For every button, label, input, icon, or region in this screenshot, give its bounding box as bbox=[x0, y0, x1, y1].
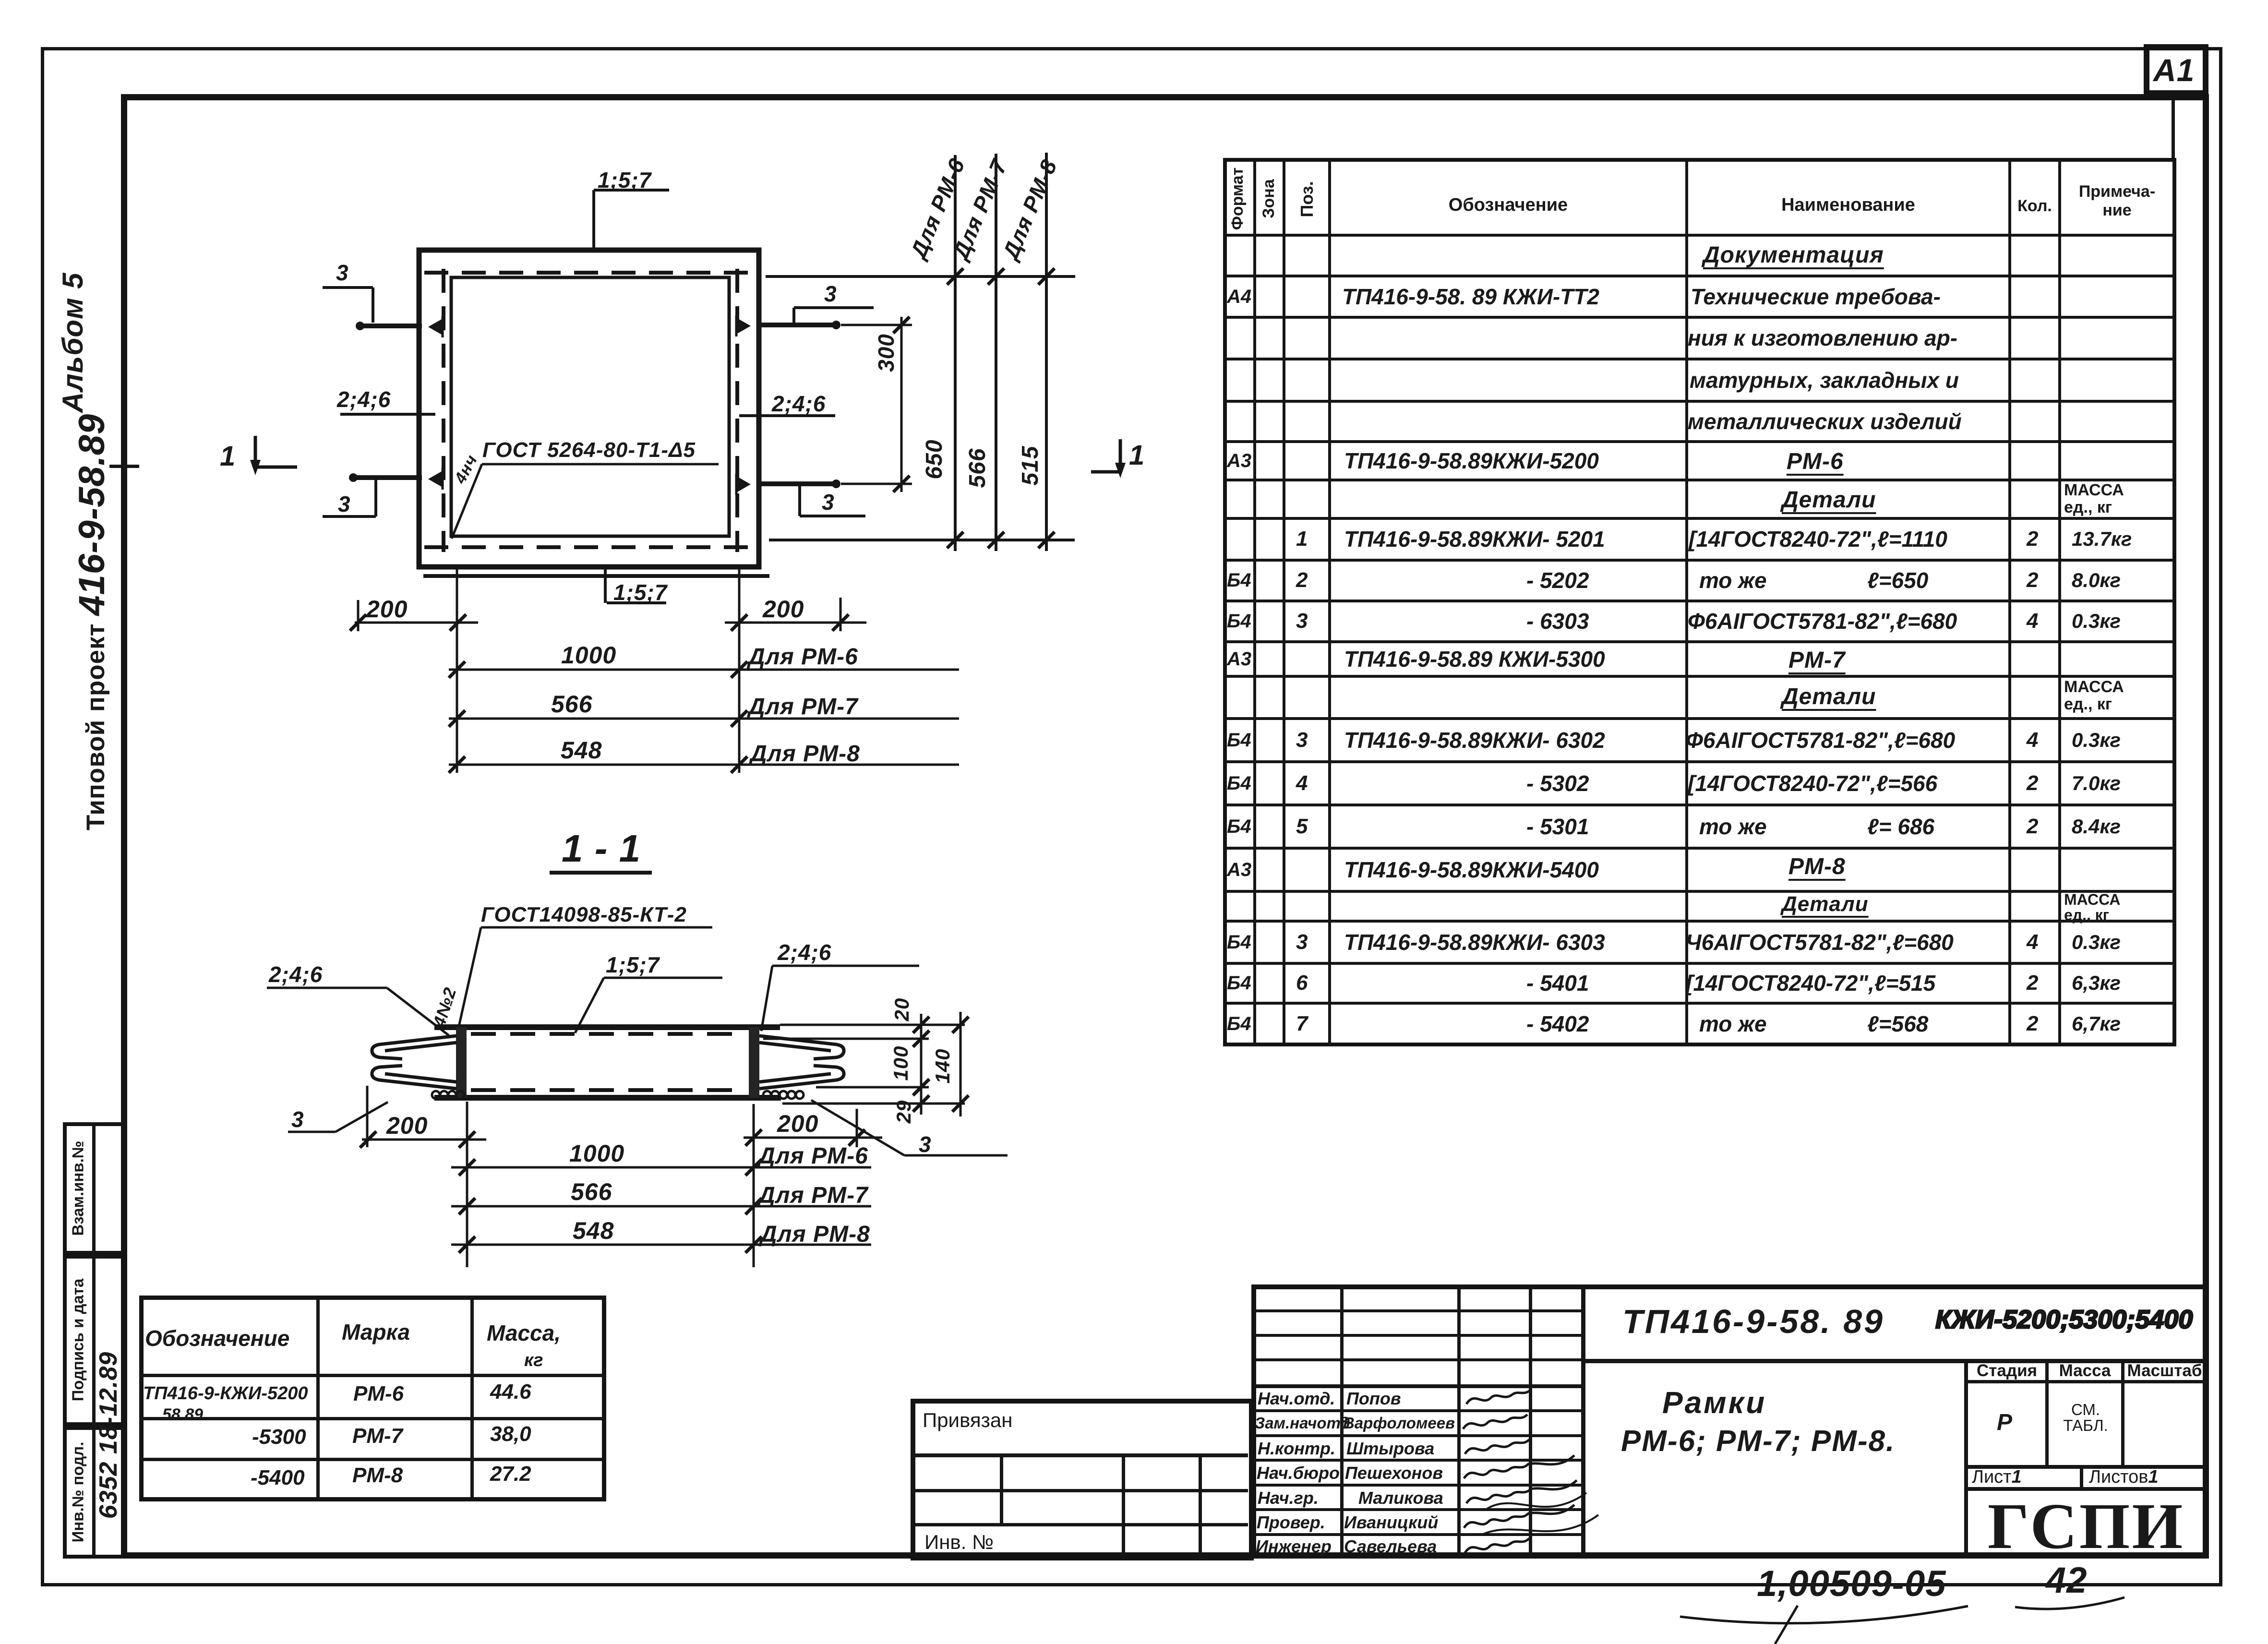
svg-text:1 - 1: 1 - 1 bbox=[562, 827, 641, 870]
svg-text:1000: 1000 bbox=[569, 1140, 624, 1167]
specification table body bbox=[1703, 244, 1884, 267]
title block frame bbox=[1251, 1284, 2209, 1559]
svg-text:650: 650 bbox=[922, 439, 947, 479]
svg-text:4нч: 4нч bbox=[451, 452, 481, 487]
plan anchor head symbol bbox=[428, 471, 442, 487]
svg-text:200: 200 bbox=[762, 596, 804, 623]
svg-text:548: 548 bbox=[573, 1217, 614, 1244]
svg-text:ГОСТ14098-85-КТ-2: ГОСТ14098-85-КТ-2 bbox=[481, 903, 687, 926]
section right dimensions 20 100 140 29 bbox=[780, 1024, 965, 1026]
specification table header bbox=[1229, 136, 1246, 261]
section weld dots bottom bbox=[432, 1091, 440, 1099]
svg-text:4№2: 4№2 bbox=[429, 985, 460, 1030]
title block horizontal lines: right part bbox=[1583, 1359, 2207, 1363]
plan dimension 300 bbox=[841, 324, 912, 326]
svg-text:140: 140 bbox=[931, 1048, 954, 1083]
svg-text:3: 3 bbox=[336, 260, 349, 285]
svg-text:515: 515 bbox=[1018, 445, 1043, 485]
svg-text:1;5;7: 1;5;7 bbox=[606, 952, 660, 977]
specification table grid bbox=[1223, 158, 2176, 1046]
margin stamp boxes bottom-left bbox=[63, 1122, 125, 1255]
A1 format box top-right bbox=[2144, 44, 2208, 96]
svg-text:ГОСТ 5264-80-Т1-Δ5: ГОСТ 5264-80-Т1-Δ5 bbox=[482, 438, 696, 462]
svg-text:200: 200 bbox=[366, 596, 408, 623]
section right channel flanges bbox=[759, 1036, 844, 1059]
svg-text:Для РМ-6: Для РМ-6 bbox=[756, 1143, 868, 1169]
svg-text:1;5;7: 1;5;7 bbox=[613, 580, 668, 605]
left margin rotated album label bbox=[59, 288, 87, 413]
handwritten bottom numbers bbox=[1757, 1566, 1946, 1602]
svg-text:2;4;6: 2;4;6 bbox=[268, 962, 323, 987]
small marks table bottom-left bbox=[139, 1296, 606, 1501]
stage/mass/scale bbox=[1966, 1362, 2048, 1379]
svg-text:1: 1 bbox=[220, 441, 236, 472]
handwritten underline swooshes bbox=[1680, 1606, 1968, 1623]
svg-text:3: 3 bbox=[291, 1107, 304, 1132]
GSPI logo bbox=[1967, 1494, 2205, 1559]
margin handwritten inventory number bbox=[96, 1310, 121, 1560]
privyazan box bbox=[911, 1399, 1254, 1560]
plan view: frame inner opening rectangle bbox=[451, 277, 729, 536]
plan view: frame outer rectangle bbox=[419, 250, 759, 567]
title block vertical dividers bbox=[1340, 1287, 1344, 1559]
title block name bbox=[1662, 1387, 1766, 1418]
plan anchor bar upper-left bbox=[357, 324, 422, 328]
svg-text:566: 566 bbox=[571, 1178, 612, 1205]
svg-text:200: 200 bbox=[777, 1110, 818, 1137]
section slab outline bbox=[434, 1024, 780, 1030]
plan anchor bar lower-right bbox=[758, 481, 839, 486]
svg-text:3: 3 bbox=[338, 492, 351, 516]
svg-text:Для РМ-7: Для РМ-7 bbox=[746, 694, 859, 720]
plan anchor head symbol bbox=[737, 477, 751, 492]
section channel webs (hatched) bbox=[456, 1027, 467, 1098]
vertical link from A1 box to spec table bbox=[2172, 95, 2175, 160]
svg-text:3: 3 bbox=[919, 1132, 932, 1157]
plan view: bottom plate edge line bbox=[423, 574, 769, 578]
svg-text:566: 566 bbox=[551, 691, 593, 718]
plan anchor bar lower-left bbox=[350, 475, 422, 480]
section left channel flanges bbox=[372, 1036, 456, 1059]
svg-text:3: 3 bbox=[822, 490, 835, 515]
svg-text:29: 29 bbox=[892, 1100, 915, 1124]
plan anchor head symbol bbox=[428, 319, 442, 335]
svg-text:Для РМ-8: Для РМ-8 bbox=[748, 741, 860, 767]
svg-text:Для РМ-7: Для РМ-7 bbox=[756, 1183, 869, 1208]
signature scribbles bbox=[1466, 1390, 1531, 1404]
svg-text:Для РМ-6: Для РМ-6 bbox=[746, 644, 858, 670]
svg-text:1: 1 bbox=[1129, 440, 1145, 471]
title block document number bbox=[1622, 1305, 1884, 1338]
title block signature rows bbox=[1258, 1390, 1335, 1407]
svg-text:100: 100 bbox=[889, 1045, 912, 1080]
left margin rotated project title bbox=[74, 432, 110, 830]
svg-text:200: 200 bbox=[386, 1112, 428, 1139]
svg-text:2;4;6: 2;4;6 bbox=[771, 391, 826, 416]
section bottom dimension chain bbox=[366, 1086, 369, 1147]
margin stamp labels bbox=[70, 1083, 86, 1294]
svg-text:20: 20 bbox=[890, 998, 913, 1022]
plan bottom dimension chain bbox=[456, 569, 458, 773]
svg-text:548: 548 bbox=[561, 737, 602, 764]
title block horizontal lines: left part bbox=[1254, 1309, 1583, 1312]
svg-text:2;4;6: 2;4;6 bbox=[336, 387, 391, 412]
svg-text:566: 566 bbox=[965, 448, 990, 488]
svg-text:3: 3 bbox=[824, 281, 837, 306]
svg-text:1000: 1000 bbox=[561, 642, 616, 669]
svg-text:300: 300 bbox=[874, 334, 899, 372]
svg-text:Для РМ-8: Для РМ-8 bbox=[758, 1222, 870, 1247]
plan view: dashed channel web lines bbox=[424, 271, 756, 275]
stray mark left margin bbox=[109, 465, 139, 468]
plan anchor bar upper-right bbox=[758, 323, 839, 327]
plan dimension lines 650 566 515 bbox=[766, 275, 1075, 278]
svg-text:2;4;6: 2;4;6 bbox=[777, 940, 831, 965]
plan anchor head symbol bbox=[737, 318, 751, 334]
